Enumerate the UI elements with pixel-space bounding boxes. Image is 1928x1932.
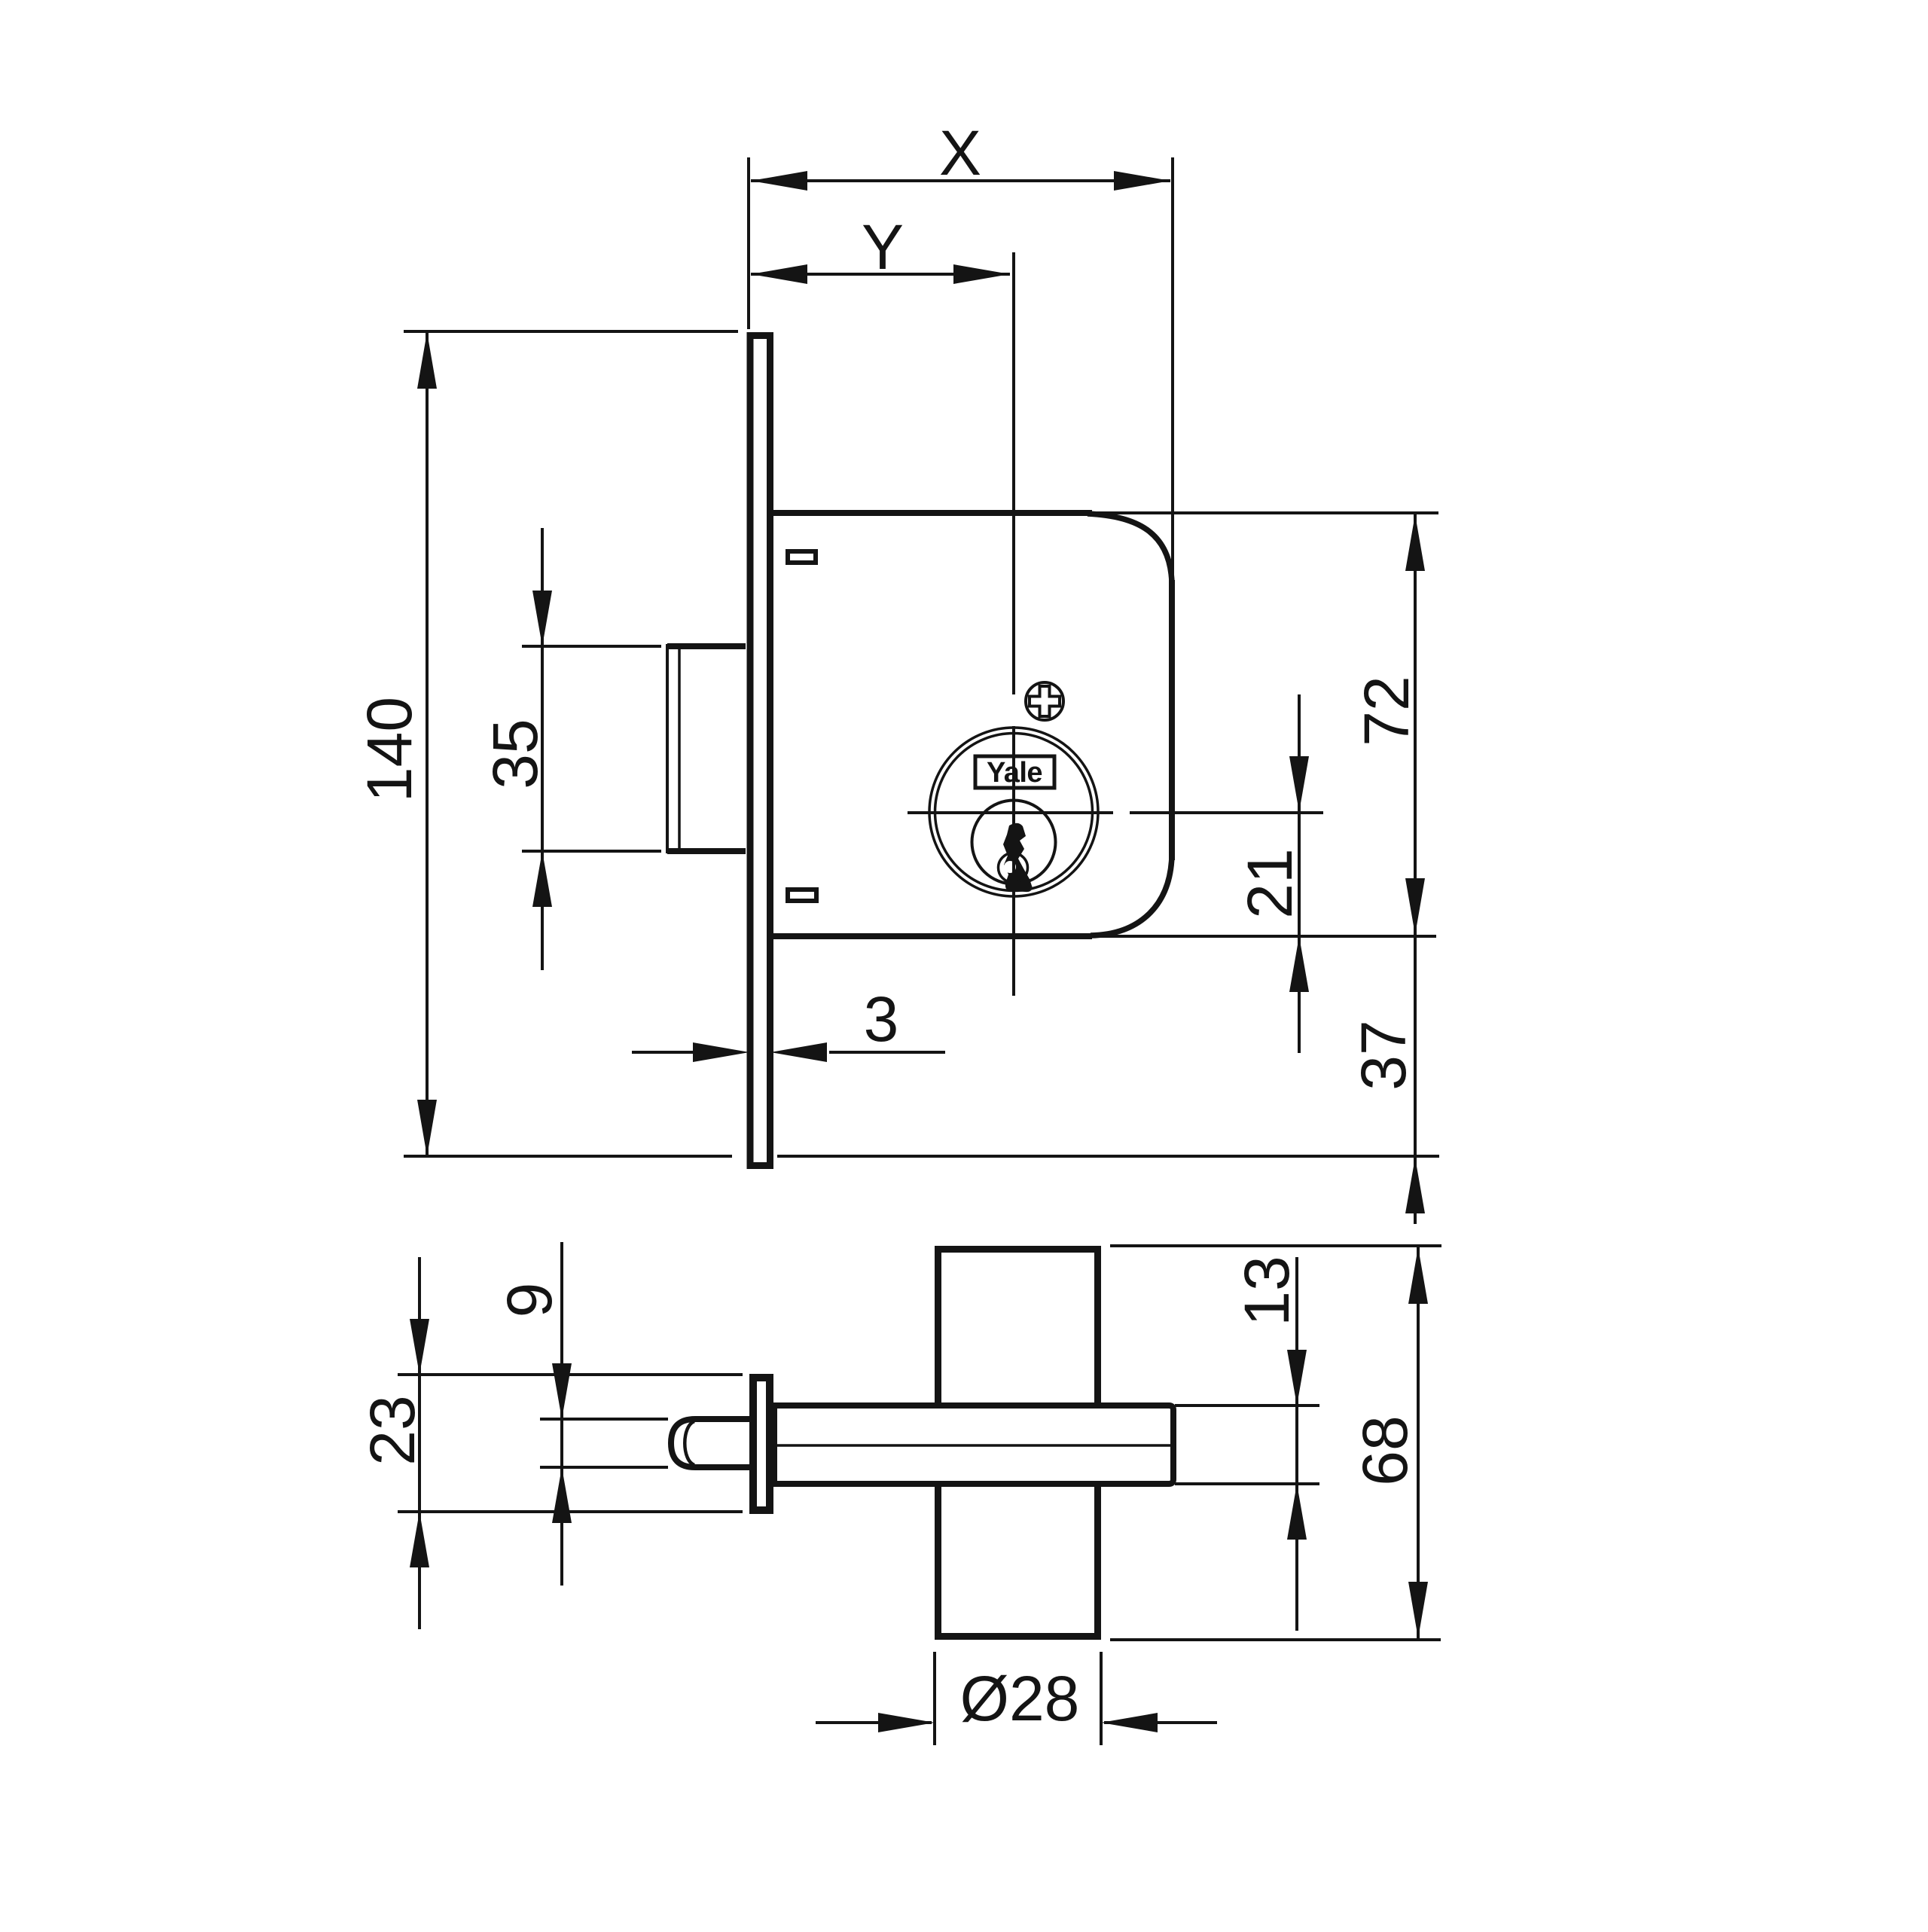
svg-text:13: 13: [1231, 1256, 1302, 1326]
svg-text:72: 72: [1351, 676, 1422, 746]
svg-text:Y: Y: [862, 212, 904, 282]
svg-text:35: 35: [480, 719, 551, 789]
svg-text:Ø28: Ø28: [960, 1663, 1080, 1734]
svg-text:23: 23: [357, 1395, 428, 1465]
svg-text:9: 9: [494, 1283, 565, 1318]
svg-text:Yale: Yale: [987, 757, 1042, 789]
svg-text:37: 37: [1348, 1020, 1419, 1090]
svg-text:21: 21: [1234, 848, 1305, 918]
svg-text:3: 3: [864, 984, 899, 1055]
svg-text:140: 140: [354, 697, 425, 802]
svg-text:X: X: [939, 118, 981, 188]
svg-text:68: 68: [1350, 1415, 1420, 1485]
